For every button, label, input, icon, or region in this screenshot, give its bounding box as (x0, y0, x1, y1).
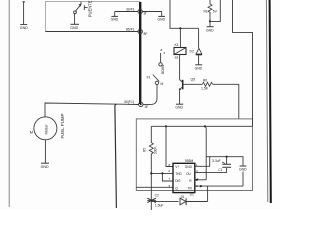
svg-text:F1: F1 (147, 76, 151, 80)
svg-text:85/F1: 85/F1 (126, 28, 135, 32)
wire V+ net down right (205, 126, 206, 180)
wire input lead (23, 2, 25, 24)
svg-text:R6: R6 (203, 78, 207, 82)
svg-text:D2: D2 (190, 50, 194, 54)
bus wire +12V (139, 2, 141, 104)
junction relay top (179, 27, 181, 29)
arrowhead on switch blade (79, 3, 82, 6)
wire DIS pin (162, 173, 173, 181)
wire 85/F1 run (46, 31, 139, 33)
svg-text:30(F1): 30(F1) (124, 100, 134, 104)
ground G4 (158, 15, 165, 17)
wire CV pin (136, 186, 173, 188)
IC U1 555 (173, 163, 195, 192)
svg-text:3f: 3f (144, 12, 147, 16)
svg-text:GND: GND (70, 26, 78, 30)
svg-text:TR: TR (188, 186, 193, 190)
svg-text:D1: D1 (181, 195, 185, 199)
wire THR pin (151, 172, 173, 174)
wire top-right feed (233, 0, 253, 126)
svg-text:8F: 8F (144, 32, 148, 36)
connector arrow (22, 1, 25, 4)
wire base (183, 83, 202, 85)
svg-text:GND: GND (195, 67, 203, 71)
node 30(F1) bus bottom (139, 102, 143, 106)
ground G8 emitter (176, 103, 183, 105)
wire OUT pin to C1 (195, 168, 227, 172)
svg-text:GND: GND (239, 168, 247, 172)
svg-text:C2: C2 (155, 194, 159, 198)
svg-text:6: 6 (169, 169, 171, 173)
svg-text:3.3uF: 3.3uF (212, 159, 221, 163)
wire motor to ground (44, 140, 46, 163)
svg-text:Q5: Q5 (191, 77, 196, 81)
svg-text:30/F1: 30/F1 (126, 8, 135, 12)
svg-text:GND: GND (206, 28, 214, 32)
wire node to ground left (115, 12, 138, 17)
wire loop right (210, 0, 220, 21)
svg-text:R1: R1 (204, 10, 208, 14)
transistor Q1 (182, 80, 184, 90)
wire fuel pump feed (45, 103, 139, 117)
wire coil to transistor (179, 55, 181, 80)
svg-text:a: a (161, 48, 163, 52)
right page border (266, 0, 267, 202)
ground G3 (111, 15, 118, 17)
wire R pin (195, 179, 206, 181)
resistor R1 top right (209, 0, 211, 4)
ground G5 (41, 162, 49, 164)
jumper switch S1 PUENTE (74, 2, 88, 25)
ground G7 (207, 26, 214, 28)
node 30/F1 (138, 9, 142, 13)
svg-text:THD: THD (175, 172, 182, 176)
svg-text:GND: GND (111, 18, 119, 22)
svg-text:555M: 555M (185, 159, 194, 163)
svg-text:M: M (161, 82, 164, 86)
svg-text:GND: GND (185, 165, 193, 169)
svg-text:R5: R5 (142, 148, 146, 152)
svg-text:3F: 3F (145, 105, 149, 109)
svg-text:PUENTE: PUENTE (87, 0, 92, 17)
wire TR pin net (195, 185, 243, 187)
svg-text:K1: K1 (175, 43, 179, 47)
svg-text:100K: 100K (154, 146, 158, 154)
wire trigger line (151, 200, 178, 202)
ground G2 (71, 23, 80, 25)
svg-text:U1: U1 (190, 193, 194, 197)
wire elbow down-left (115, 104, 117, 208)
wire node to ground right (142, 12, 162, 17)
svg-text:GND: GND (41, 165, 49, 169)
wire relay feed (170, 0, 199, 28)
capacitor C1 3.3uF (226, 157, 228, 164)
svg-text:GND: GND (175, 106, 183, 110)
relay K1 coil (174, 48, 186, 55)
svg-text:GND: GND (20, 26, 28, 30)
svg-text:Q: Q (175, 186, 178, 190)
wire to relay coil (179, 28, 181, 47)
svg-text:1.5uF: 1.5uF (155, 204, 164, 208)
diode D2 (198, 28, 200, 48)
svg-text:OU: OU (186, 172, 191, 176)
ground G9 (240, 165, 247, 167)
svg-text:x: x (164, 51, 166, 55)
ground G6 (195, 64, 202, 66)
svg-text:FUEL PUMP: FUEL PUMP (60, 113, 65, 138)
wire GND pin to rail (195, 157, 210, 166)
junction below resistor (209, 20, 211, 22)
svg-text:V+: V+ (175, 165, 179, 169)
svg-text:C1: C1 (218, 168, 222, 172)
svg-text:DIS: DIS (175, 179, 180, 183)
capacitor C2 1.5uF (147, 198, 156, 202)
svg-text:M: M (30, 130, 33, 135)
resistor R6 1.5K (202, 82, 212, 86)
left page border (8, 0, 10, 207)
node 85/F1 (138, 29, 142, 33)
resistor R5 100K (150, 126, 152, 142)
motor M1 fuel pump (34, 117, 57, 140)
svg-text:5V: 5V (213, 10, 218, 14)
svg-text:a1: a1 (175, 56, 179, 60)
svg-text:1.5K: 1.5K (201, 86, 209, 90)
svg-text:R: R (189, 179, 192, 183)
wire 3.3uF rail (206, 157, 243, 166)
wire switch to bus node (143, 85, 158, 105)
svg-text:Motor: Motor (44, 124, 49, 135)
wire V+ rail inside box (151, 125, 252, 127)
enclosure box top-left (46, 2, 141, 32)
wire V+ pin (166, 126, 173, 166)
svg-text:GND: GND (158, 18, 166, 22)
wire base feed from 555 block (213, 84, 239, 119)
diode D1 (180, 198, 186, 205)
svg-text:7: 7 (169, 177, 171, 181)
svg-text:BOMB: BOMB (161, 65, 165, 74)
enclosure box 555 block (136, 119, 252, 191)
ground G1 (20, 24, 27, 26)
wire to ground (209, 21, 211, 26)
